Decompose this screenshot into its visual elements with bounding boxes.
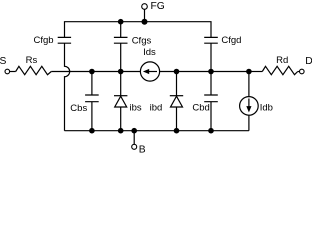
resistor Rs bbox=[16, 66, 52, 74]
svg-text:Cbd: Cbd bbox=[192, 103, 209, 114]
svg-text:ibd: ibd bbox=[150, 103, 163, 114]
wire Cfgs upper lead bbox=[120, 22, 122, 38]
svg-text:Idb: Idb bbox=[260, 103, 273, 114]
svg-text:Cfgd: Cfgd bbox=[221, 35, 241, 46]
svg-text:Rs: Rs bbox=[26, 55, 38, 66]
junction dot top rail at Cfgs bbox=[118, 19, 124, 25]
wire top rail FG net bbox=[65, 22, 212, 38]
wire Ids to drain node bbox=[160, 71, 249, 73]
junction dot bottom rail at ibd bbox=[174, 128, 180, 134]
current source Ids bbox=[140, 62, 159, 81]
svg-text:D: D bbox=[305, 56, 312, 67]
svg-text:Ids: Ids bbox=[143, 47, 156, 58]
capacitor Cbs bbox=[85, 95, 99, 102]
svg-text:Cbs: Cbs bbox=[70, 103, 87, 114]
junction dot bottom rail at B bbox=[131, 128, 137, 134]
svg-text:S: S bbox=[0, 56, 7, 67]
wire Cbd upper lead bbox=[210, 72, 212, 96]
junction dot top rail at FG bbox=[142, 19, 148, 25]
svg-text:ibs: ibs bbox=[130, 103, 142, 114]
wire Idb lower lead bbox=[248, 115, 250, 131]
junction dot mid rail at Cfgs/ibs bbox=[118, 69, 124, 75]
capacitor Cfgs bbox=[114, 37, 128, 43]
wire bottom rail B net bbox=[65, 130, 249, 132]
wire Idb upper lead bbox=[248, 72, 250, 97]
capacitor Cfgd bbox=[204, 37, 218, 43]
junction dot mid rail at Idb/Rd bbox=[246, 69, 252, 75]
svg-text:FG: FG bbox=[151, 1, 165, 12]
capacitor Cfgb bbox=[58, 37, 71, 43]
wire ibs lower lead bbox=[120, 107, 122, 131]
resistor Rd bbox=[262, 66, 297, 74]
wire FG stub bbox=[144, 9, 146, 22]
wire ibs upper lead bbox=[120, 72, 122, 96]
diode ibd bbox=[170, 96, 183, 107]
wire Rd to D terminal bbox=[298, 71, 300, 73]
current source Idb bbox=[240, 97, 259, 116]
wire ibd upper lead bbox=[176, 72, 178, 96]
wire S to Rs bbox=[10, 71, 16, 73]
junction dot bottom rail at Cbd bbox=[208, 128, 214, 134]
terminal D bbox=[300, 69, 305, 74]
capacitor Cbd bbox=[204, 95, 218, 102]
junction dot bottom rail at Cbs bbox=[89, 128, 95, 134]
wire Cfgs lower lead bbox=[120, 43, 122, 71]
wire Cbs lower lead bbox=[91, 102, 93, 131]
wire B stub bbox=[133, 131, 135, 145]
diode ibs bbox=[114, 96, 127, 107]
junction dot bottom rail at ibs bbox=[118, 128, 124, 134]
terminal FG bbox=[142, 4, 148, 10]
terminal S bbox=[5, 69, 10, 74]
svg-text:Rd: Rd bbox=[276, 55, 288, 66]
svg-text:Cfgb: Cfgb bbox=[34, 35, 54, 46]
wire Rs to Ids node rail (passes under hop) bbox=[51, 71, 140, 73]
wire Cfgb lower lead with hop over source wire bbox=[65, 43, 70, 131]
wire Cbs upper lead bbox=[91, 72, 93, 96]
wire Cfgd lower lead bbox=[210, 43, 212, 71]
junction dot mid rail at ibd bbox=[174, 69, 180, 75]
svg-text:Cfgs: Cfgs bbox=[132, 35, 152, 46]
junction dot mid rail at Cbs bbox=[89, 69, 95, 75]
svg-text:B: B bbox=[139, 144, 146, 155]
terminal B bbox=[132, 144, 137, 149]
junction dot mid rail at Cfgd/Cbd bbox=[208, 69, 214, 75]
wire ibd lower lead bbox=[176, 107, 178, 131]
wire Cbd lower lead bbox=[210, 102, 212, 131]
wire node to Rd bbox=[249, 71, 262, 73]
